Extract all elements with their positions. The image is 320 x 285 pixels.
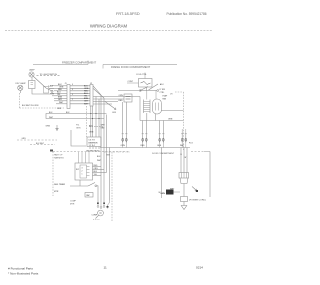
freezer lamp L2 (18, 85, 23, 90)
fresh food compartment top line (103, 64, 177, 66)
junction dots (90, 113, 91, 114)
right wire mark (107, 205, 109, 209)
svg-text:COLD CTRL: COLD CTRL (136, 74, 147, 76)
svg-text:WIRING DIAGRAM: WIRING DIAGRAM (90, 23, 128, 28)
ladder feed down (146, 113, 148, 121)
harness dashed vert mid (86, 106, 88, 137)
svg-text:BLK WHT YEL ORN: BLK WHT YEL ORN (22, 105, 39, 107)
pin pair T4 (180, 133, 187, 147)
svg-text:RLY: RLY (76, 169, 80, 171)
svg-text:W: W (185, 157, 187, 159)
pin pair T4 stubs (182, 129, 186, 134)
ground symbol (181, 202, 187, 210)
svg-text:EVAP: EVAP (163, 95, 168, 98)
svg-text:FAN: FAN (163, 98, 167, 101)
relay box feeds (79, 152, 90, 163)
svg-text:YEL: YEL (94, 174, 97, 176)
capacitor box (85, 193, 93, 198)
svg-text:DR: DR (170, 94, 173, 96)
block feed wire 2 (92, 106, 94, 137)
svg-text:ORN: ORN (168, 119, 173, 121)
svg-text:3: 3 (82, 168, 83, 170)
lamp socket box (29, 81, 36, 89)
svg-text:GRN: GRN (112, 112, 117, 114)
svg-text:BKWHOR: BKWHOR (89, 142, 99, 144)
svg-text:MTR: MTR (54, 191, 59, 193)
pin pair T2 (141, 133, 148, 147)
svg-text:6: 6 (72, 89, 73, 91)
diagonal wire to arrow (105, 102, 116, 110)
block pins down (89, 147, 91, 150)
svg-text:FREEZER COMPARTMENT: FREEZER COMPARTMENT (62, 61, 96, 65)
svg-text:ORN: ORN (119, 95, 124, 97)
harness dashed horiz long (53, 151, 129, 153)
connector block K1 (87, 137, 101, 147)
svg-text:1: 1 (82, 174, 83, 176)
terminal bus (100, 147, 190, 149)
svg-text:HARNESS: HARNESS (54, 157, 64, 160)
power cord verticals (180, 148, 182, 173)
block feed wire 4 (98, 99, 100, 137)
freezer harness dashed horiz (20, 107, 65, 109)
pass-through small box (124, 94, 132, 102)
svg-text:5 6 7 8: 5 6 7 8 (89, 140, 96, 142)
svg-text:J1: J1 (65, 83, 67, 85)
control thermostat box (139, 79, 153, 88)
freezer harness dashed vert (19, 93, 21, 108)
fresh food drops (139, 97, 141, 121)
svg-text:DEF. TIMER: DEF. TIMER (54, 184, 66, 186)
capsule wire to edge (162, 110, 184, 112)
power wires into freezer (46, 114, 107, 117)
compressor wire terminals (97, 206, 99, 208)
door switch (34, 77, 52, 91)
bus dash-dot below (104, 151, 130, 153)
fresh food switch cluster (118, 90, 139, 92)
svg-text:J2: J2 (90, 83, 92, 85)
svg-text:PLG: PLG (189, 143, 193, 145)
svg-text:2: 2 (72, 99, 73, 101)
right edge dashes (191, 151, 204, 153)
svg-text:8: 8 (72, 84, 73, 86)
svg-text:* Non-Illustrated Parts: * Non-Illustrated Parts (8, 272, 39, 276)
svg-text:0214: 0214 (196, 266, 203, 270)
wire J2 diagonal to run 1 (93, 86, 101, 95)
svg-text:ADJ: ADJ (160, 83, 163, 86)
fresh food dashed box right edge (183, 92, 185, 150)
svg-text:BLK: BLK (97, 156, 101, 158)
svg-text:BLK WHT: BLK WHT (36, 143, 45, 145)
vertical run right (161, 148, 163, 199)
svg-text:BK WH OR RD: BK WH OR RD (87, 151, 100, 153)
svg-text:DOOR COMPARTMENT: DOOR COMPARTMENT (152, 152, 175, 155)
svg-text:LAMP: LAMP (49, 84, 55, 87)
svg-text:FRT-18-5FSD: FRT-18-5FSD (116, 12, 140, 16)
evap fan capsule (153, 99, 162, 114)
block feed wire 1 (90, 106, 92, 137)
svg-text:COMP: COMP (92, 215, 98, 217)
svg-text:GRN: GRN (46, 126, 51, 128)
svg-text:LAMP: LAMP (29, 69, 35, 72)
pin pair T2 feeds (142, 121, 144, 135)
harness dashed vert (52, 152, 54, 197)
dash leader to light switch (37, 75, 61, 77)
wire J2 diagonal to run 2 (93, 88, 104, 98)
svg-text:GRN: GRN (57, 108, 62, 110)
svg-text:4: 4 (72, 94, 73, 96)
svg-text:CONT: CONT (128, 81, 134, 83)
wire lamp2 down (19, 90, 21, 93)
relay box (75, 163, 93, 180)
svg-text:(POWER CORD): (POWER CORD) (189, 200, 206, 202)
diagonal arrow (192, 187, 197, 191)
svg-text:ORN: ORN (94, 168, 99, 170)
cord wire down (183, 184, 185, 197)
svg-text:CAP: CAP (86, 194, 90, 197)
svg-text:FRESH FOOD COMPARTMENT: FRESH FOOD COMPARTMENT (111, 65, 151, 69)
svg-text:GRN: GRN (160, 193, 165, 195)
svg-text:TO LIGHT SWITCH: TO LIGHT SWITCH (40, 74, 58, 76)
svg-text:ORN: ORN (89, 132, 94, 134)
svg-text:2: 2 (82, 171, 83, 173)
svg-text:GRN: GRN (76, 128, 81, 130)
svg-text:# Functional Parts: # Functional Parts (8, 267, 33, 271)
pin pair T3 (158, 133, 165, 147)
fresh food dashed box top edge (175, 91, 184, 93)
strain relief (181, 197, 188, 202)
feeds to ladder and capsule (147, 91, 156, 100)
svg-text:11: 11 (104, 266, 107, 270)
svg-text:Publication No. 5995421786: Publication No. 5995421786 (166, 12, 206, 16)
vertical dashed run (111, 152, 113, 222)
right edge vertical (209, 152, 211, 198)
timer wire (79, 180, 81, 186)
pin pair T1 feeds (122, 102, 124, 134)
wires freezer to connector J1 (54, 85, 67, 87)
relay wires right (93, 166, 102, 168)
svg-text:P11: P11 (76, 125, 80, 127)
heater ladder (144, 100, 151, 114)
wire lamp to socket (31, 77, 33, 80)
svg-text:1 2 3 4: 1 2 3 4 (89, 145, 96, 147)
compressor motor (98, 210, 104, 216)
control wires (146, 87, 148, 91)
pin pair T1 (121, 133, 128, 147)
dashed rule under title (5, 30, 212, 32)
wires J2 into fresh food section (93, 96, 140, 98)
svg-text:GRN: GRN (22, 138, 27, 140)
harness boundary dashes y145 (30, 144, 55, 146)
fresh food bus (140, 120, 184, 122)
dash leader mid (89, 126, 104, 128)
svg-text:FRZ LAMP: FRZ LAMP (16, 82, 27, 85)
svg-text:RED: RED (119, 100, 124, 102)
connector J1 bar (67, 85, 70, 109)
svg-text:LT SW: LT SW (160, 89, 166, 91)
wire socket down (32, 89, 54, 95)
connector J2 bar (90, 85, 93, 107)
small box left of block (71, 130, 86, 146)
svg-text:WHT: WHT (180, 145, 185, 147)
grn lug (166, 190, 174, 195)
compressor tail (96, 215, 99, 218)
freezer lamp L1 (29, 72, 34, 77)
pin pair T3 feeds (159, 121, 161, 135)
wires between J1 and J2 (70, 85, 90, 87)
cord connector (179, 173, 189, 179)
svg-text:CTRL: CTRL (160, 92, 165, 94)
svg-text:PART OF: PART OF (54, 154, 63, 157)
freezer compartment top line (33, 64, 88, 66)
block feed wire 3 (95, 97, 97, 138)
vertical run pair (100, 95, 102, 202)
svg-text:MTR: MTR (70, 204, 75, 206)
ground arrow freezer (56, 125, 58, 131)
svg-text:COMP: COMP (70, 201, 77, 203)
svg-text:B: B (181, 154, 183, 156)
